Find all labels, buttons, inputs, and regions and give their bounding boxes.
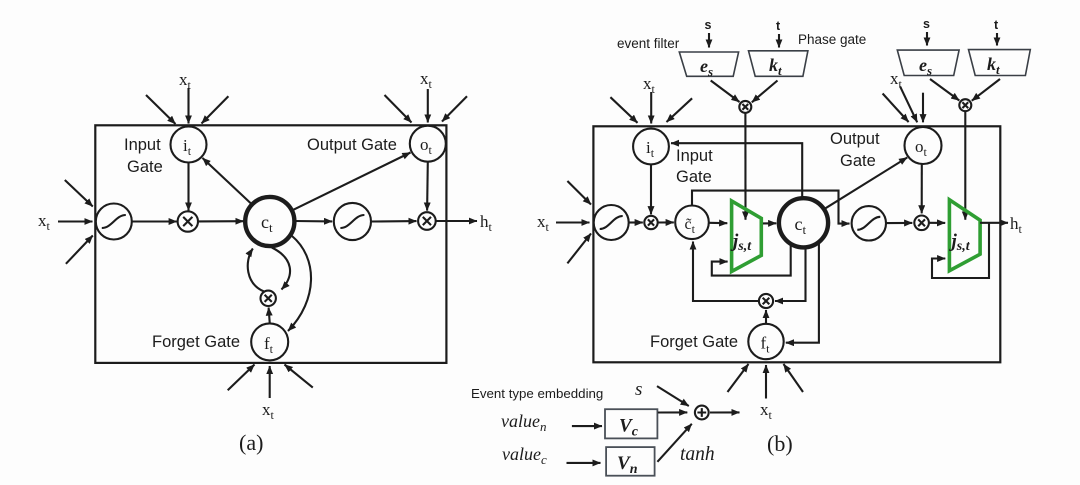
node x_t top-right (a) [420,69,433,91]
wire c~_t to selector j left (b) [709,222,727,224]
svg-text:xt: xt [420,69,433,91]
svg-text:js,t: js,t [730,231,752,254]
wire diag right into o_t (a) [442,96,467,121]
node value_c [502,444,547,467]
svg-text:s: s [635,379,642,400]
wire diag from x_t into o_t (b) [900,86,917,122]
wire c_t to o_t peephole (b) [823,158,907,210]
wire selector j left to c_t (b) [763,222,776,224]
cell box (a) [95,125,446,363]
wire multiply to selector j left (b) [744,113,746,220]
node x_t above i_t (b) [643,74,656,96]
wire vertical into i_t (a) [187,88,189,124]
svg-text:Input: Input [676,147,713,165]
label Phase gate [798,32,866,47]
selector j_s,t right (green) [949,200,980,271]
wire long diag into o_t (b) [883,94,909,123]
svg-text:ht: ht [1010,214,1023,236]
node x_t left (a) [38,211,51,233]
svg-text:Forget Gate: Forget Gate [650,333,738,351]
trapezoid e_s left (b) [679,52,738,76]
svg-text:s: s [923,17,930,31]
label Output Gate (a) [307,136,397,154]
caption (b) [767,431,793,456]
multiply node x2 (a) [418,212,436,230]
sigmoid sigma1 (a) [96,204,132,240]
wire selector j right to h_t (b) [980,222,1008,224]
wire x1 to c_t (a) [198,220,244,222]
svg-text:ot: ot [915,137,928,159]
wire vertical into f_t (b) [765,365,767,399]
node x_t left (b) [537,212,550,234]
wire plus to x_t [710,411,740,413]
sigmoid sigma1 (b) [594,205,629,240]
wire curve c_t to f_t peephole (a) [288,236,311,331]
svg-text:xt: xt [38,211,51,233]
node t right (b) [994,18,999,32]
svg-text:ft: ft [264,334,274,356]
wire c_t down to x3 (b) [775,247,806,301]
wire s into e_s left (b) [708,33,710,48]
svg-text:Output: Output [830,130,880,148]
gate circle f_t (a) [251,323,288,360]
wire diag right into f_t (b) [784,364,804,392]
node h_t (b) [1010,214,1023,236]
svg-text:Gate: Gate [676,168,712,186]
cell state c_t (b) [779,198,828,247]
trapezoid k_t right (b) [969,50,1031,76]
wire c_t to sigma2 (a) [295,220,333,222]
wire value_n to V_c [572,425,602,427]
wire vertical into o_t (a) [427,89,429,123]
svg-text:tanh: tanh [680,444,715,465]
svg-text:xt: xt [262,400,275,422]
label Event type embedding [471,386,603,401]
svg-text:it: it [646,138,655,160]
wire k_t left to multiply (b) [752,81,778,103]
svg-text:ht: ht [480,212,493,234]
node s right (b) [923,17,930,31]
wire s into e_s right (b) [926,32,928,46]
svg-text:xt: xt [537,212,550,234]
wire curve x3 to c_t (a) [248,249,264,292]
wire c_t to o_t peephole (a) [293,153,411,211]
svg-text:ot: ot [420,135,433,157]
wire x3 left and up into c~_t (b) [693,242,759,302]
wire vertical into o_t (b) [922,93,924,123]
candidate circle c~_t (b) [675,206,709,240]
svg-text:es: es [919,55,932,78]
wire vertical into f_t (a) [269,366,271,398]
svg-text:Event type embedding: Event type embedding [471,386,603,401]
node t left (b) [776,19,781,33]
wire diag lower-left into sigma1 (a) [66,236,93,264]
svg-text:xt: xt [643,74,656,96]
svg-text:t: t [994,18,999,32]
wire c_t feedback loop to selector j left (b) [712,245,791,276]
wire diag right into i_t (b) [667,98,693,122]
gate circle o_t (a) [410,126,446,162]
label event filter [617,36,680,51]
label Output Gate (b) [830,130,880,170]
svg-text:it: it [183,136,192,158]
svg-text:(b): (b) [767,431,793,456]
svg-text:Output Gate: Output Gate [307,136,397,154]
wire diag right into i_t (a) [202,96,229,123]
svg-text:Vn: Vn [617,453,638,477]
wire c_t down to f_t (b) [786,242,819,343]
wire f_t to x3 (a) [269,308,270,325]
node x_t top-left (a) [179,70,192,92]
box V_c [605,409,657,438]
cell box (b) [593,126,1000,362]
wire e_s right to multiply (b) [930,79,959,101]
svg-text:(a): (a) [239,430,263,455]
selector j_s,t left (green) [732,201,762,272]
wire V_n to plus [657,424,691,462]
wire diag lower-left into sigma1 (b) [567,234,591,264]
wire diag left into f_t (a) [228,365,255,391]
gate circle i_t (b) [633,129,669,165]
wire t into k_t right (b) [996,33,998,46]
wire multiply to selector j right (b) [964,111,966,220]
wire sigma2 to x2 (a) [371,220,416,222]
gate circle o_t (b) [905,127,942,164]
wire V_c to plus [658,411,688,413]
svg-text:xt: xt [760,400,773,422]
wire diag left into f_t (b) [728,364,749,392]
wire i_t to x1 (b) [650,165,652,215]
svg-text:js,t: js,t [949,231,971,254]
caption (a) [239,430,263,455]
wire diag left into i_t (b) [610,97,637,123]
svg-text:ct: ct [261,212,273,235]
svg-text:event filter: event filter [617,36,680,51]
wire vertical into i_t (b) [650,92,652,124]
add node plus [695,406,709,420]
wire o_t to x2 (b) [921,165,923,214]
node s (embedding) [635,379,642,400]
svg-text:Gate: Gate [127,158,163,176]
node value_n [501,411,546,434]
wire sigma1 to x1 (a) [133,220,177,222]
label Input Gate (b) [676,147,713,186]
multiply node x1 (b) [644,216,657,229]
wire f_t to x3 (b) [765,310,767,324]
wire c_t to i_t peephole (a) [203,158,252,204]
label Forget Gate (a) [152,333,240,351]
node s left (b) [705,18,712,32]
svg-text:valuen: valuen [501,411,546,434]
wire t into k_t left (b) [778,34,780,48]
node x_t bottom (a) [262,400,275,422]
gate circle f_t (b) [748,324,783,359]
multiply node x1 (a) [178,211,198,231]
multiply node top-left (b) [739,101,751,113]
wire diag right into f_t (a) [285,365,313,388]
multiply node x3 (b) [759,294,773,308]
wire x2 to selector j right (b) [929,222,945,224]
label tanh [680,444,715,465]
node x_t above o_t (b) [890,69,903,91]
wire sigma2 to x2 (b) [886,222,912,224]
svg-text:kt: kt [769,55,782,78]
node x_t bottom (b) [760,400,773,422]
wire x_t to sigma1 (b) [556,221,590,223]
svg-text:Gate: Gate [840,152,876,170]
multiply node x3 below c_t (a) [261,291,276,306]
label Input Gate (a) [124,136,163,176]
svg-text:Vc: Vc [619,416,639,440]
wire diag left into o_t (a) [385,95,412,123]
svg-text:Phase gate: Phase gate [798,32,866,47]
cell state c_t (a) [245,197,294,246]
wire diag left into i_t (a) [146,95,176,124]
svg-text:xt: xt [179,70,192,92]
svg-text:valuec: valuec [502,444,547,467]
wire diag upper-left into sigma1 (a) [65,180,93,207]
svg-text:t: t [776,19,781,33]
wire x_t to sigma1 (a) [58,220,93,222]
wire e_s left to multiply (b) [711,81,740,103]
svg-text:Input: Input [124,136,161,154]
wire value_c to V_n [567,462,601,464]
svg-text:s: s [705,18,712,32]
trapezoid e_s right (b) [897,50,959,75]
wire c_t up and left to i_t (b) [671,143,802,198]
multiply node top-right (b) [959,99,971,111]
wire diag upper-left into sigma1 (b) [567,181,591,205]
svg-text:es: es [700,56,713,79]
node h_t (a) [480,212,493,234]
wire i_t to x1 (a) [187,163,189,211]
svg-text:c̃t: c̃t [685,216,696,236]
wire sigma1 to x1 (b) [629,221,643,223]
wire s to plus [657,386,689,406]
box V_n [606,447,655,476]
wire curve c_t to x3 (a) [272,248,290,290]
svg-text:ct: ct [795,214,807,237]
sigmoid sigma2 (a) [334,203,371,240]
wire k_t right to multiply (b) [972,79,1000,101]
label Forget Gate (b) [650,333,738,351]
svg-text:Forget Gate: Forget Gate [152,333,240,351]
sigmoid sigma2 (b) [852,206,886,240]
svg-text:ft: ft [761,334,771,356]
wire x2 to h_t (a) [436,220,477,222]
multiply node x2 (b) [914,216,929,231]
wire output feedback loop into selector j right (b) [932,223,989,278]
gate circle i_t (a) [171,127,207,163]
wire c~_t up over c_t down to sigma2 (b) [692,191,850,224]
wire x1 to c~_t (b) [658,221,674,223]
wire o_t to x2 (a) [426,162,429,211]
svg-text:kt: kt [987,54,1000,77]
trapezoid k_t left (b) [749,51,808,77]
